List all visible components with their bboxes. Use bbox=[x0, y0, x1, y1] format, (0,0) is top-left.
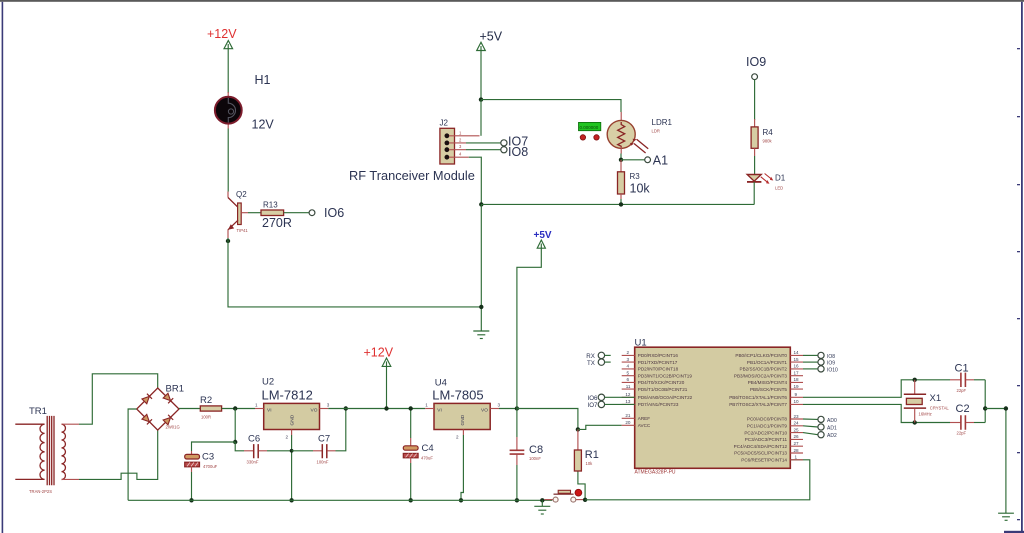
svg-text:PD3/INT1/OC2B/PCINT19: PD3/INT1/OC2B/PCINT19 bbox=[638, 373, 693, 378]
svg-text:5: 5 bbox=[626, 371, 629, 376]
svg-text:4: 4 bbox=[626, 364, 629, 369]
svg-text:R2: R2 bbox=[200, 395, 212, 406]
wire U1 to IO8 bbox=[803, 354, 818, 356]
svg-text:1: 1 bbox=[255, 402, 258, 407]
svg-text:LDR: LDR bbox=[652, 129, 660, 134]
svg-text:C6: C6 bbox=[248, 434, 260, 445]
svg-text:9: 9 bbox=[795, 392, 798, 397]
wire +5V node to R1 AVCC bbox=[517, 409, 578, 430]
svg-text:TX: TX bbox=[587, 360, 595, 367]
U1 right pin labels bbox=[729, 353, 787, 462]
svg-text:H1: H1 bbox=[255, 73, 271, 87]
junction right rail bbox=[983, 406, 987, 410]
resistor R4 bbox=[751, 119, 773, 156]
svg-text:C3: C3 bbox=[202, 452, 214, 463]
wire right rail to ground bbox=[985, 409, 1006, 514]
svg-text:2: 2 bbox=[286, 435, 289, 440]
wire C6 to U2 GND bbox=[267, 450, 292, 452]
wire LDR1 to junction bbox=[620, 154, 622, 160]
wire H1 to Q2 collector bbox=[227, 129, 229, 192]
capacitor C1 bbox=[950, 363, 985, 394]
svg-text:330nF: 330nF bbox=[247, 460, 259, 465]
wire D1 to rail bbox=[753, 182, 755, 205]
wire TR1 secondary top to BR1 bbox=[79, 374, 158, 424]
junction R2 C6 bbox=[233, 406, 237, 410]
svg-text:AD1: AD1 bbox=[827, 425, 837, 431]
junction C4 bottom bbox=[409, 498, 413, 502]
wire BR1 to R2 bbox=[179, 408, 200, 410]
LED D1 bbox=[747, 174, 786, 191]
wire C7 to VO rail bbox=[336, 409, 346, 451]
svg-text:C2: C2 bbox=[956, 403, 970, 415]
svg-text:Q2: Q2 bbox=[236, 190, 247, 199]
wire J2 pin3 to IO8 bbox=[466, 149, 501, 151]
svg-text:14: 14 bbox=[794, 350, 800, 355]
terminal IO10 right bbox=[818, 366, 838, 374]
junction U4 gnd rail bbox=[459, 498, 463, 502]
wire crystal right rail bbox=[984, 380, 986, 423]
power +5V supply bbox=[517, 230, 552, 409]
svg-text:22pF: 22pF bbox=[957, 388, 967, 393]
svg-text:PB2/SS/OC1B/PCINT2: PB2/SS/OC1B/PCINT2 bbox=[740, 367, 788, 372]
svg-text:D1: D1 bbox=[775, 174, 786, 183]
svg-text:PB6/TOSC1/XTAL1/PCINT6: PB6/TOSC1/XTAL1/PCINT6 bbox=[729, 395, 787, 400]
svg-text:3: 3 bbox=[498, 402, 501, 407]
svg-text:10: 10 bbox=[794, 399, 800, 404]
svg-text:1: 1 bbox=[425, 402, 428, 407]
transistor Q2 bbox=[228, 190, 248, 238]
svg-text:0.000000: 0.000000 bbox=[580, 125, 599, 130]
wire junction down to C3 C6 node bbox=[234, 409, 236, 443]
svg-text:IO8: IO8 bbox=[508, 145, 528, 159]
svg-text:PC5/ADC5/SCL/PCINT13: PC5/ADC5/SCL/PCINT13 bbox=[734, 451, 787, 456]
svg-text:PD2/INT0/PCINT18: PD2/INT0/PCINT18 bbox=[638, 367, 679, 372]
push button bbox=[545, 489, 584, 502]
wire U4 GND to ground rail bbox=[461, 435, 463, 500]
svg-text:20: 20 bbox=[625, 420, 631, 425]
svg-text:4700uF: 4700uF bbox=[203, 464, 218, 469]
svg-text:PC6/RESET/PCINT14: PC6/RESET/PCINT14 bbox=[741, 458, 787, 463]
resistor R13 bbox=[261, 200, 292, 230]
wire C6 lead left bbox=[235, 442, 244, 451]
terminal A1 bbox=[645, 154, 668, 168]
wire R2 to U2 VI bbox=[222, 408, 255, 410]
svg-text:PC4/ADC4/SDA/PCINT12: PC4/ADC4/SDA/PCINT12 bbox=[734, 444, 788, 449]
capacitor C3 bbox=[185, 451, 218, 472]
terminal IO6 at U1 bbox=[588, 394, 605, 402]
ground bottom section bbox=[534, 500, 550, 514]
svg-text:GND: GND bbox=[460, 414, 466, 425]
wire TR1 secondary bottom to BR1 (with hop) bbox=[79, 430, 158, 479]
svg-text:R1: R1 bbox=[585, 449, 599, 461]
svg-text:IO10: IO10 bbox=[827, 367, 838, 373]
svg-text:100nF: 100nF bbox=[317, 460, 329, 465]
svg-text:LED: LED bbox=[775, 186, 783, 191]
svg-text:+12V: +12V bbox=[364, 346, 394, 360]
svg-text:AVCC: AVCC bbox=[638, 423, 651, 428]
svg-text:C1: C1 bbox=[955, 363, 969, 375]
wire R13 to IO6 bbox=[284, 212, 310, 214]
svg-text:11: 11 bbox=[626, 384, 631, 389]
svg-text:23: 23 bbox=[794, 414, 800, 419]
terminal IO7 bbox=[501, 135, 528, 149]
wire +5V to junction bbox=[480, 46, 482, 100]
svg-text:2: 2 bbox=[626, 350, 629, 355]
wire XTAL1 net bbox=[803, 380, 950, 398]
capacitor C4 bbox=[403, 409, 433, 501]
svg-text:12V: 12V bbox=[252, 118, 275, 132]
svg-text:PC0/ADC0/PCINT8: PC0/ADC0/PCINT8 bbox=[747, 417, 788, 422]
svg-text:1: 1 bbox=[795, 455, 798, 460]
wire U1 to AD2 bbox=[803, 433, 818, 435]
junction R1 AVCC bbox=[576, 427, 580, 431]
U1 left pin stubs and numbers bbox=[622, 350, 635, 425]
wire U1 to IO9 bbox=[803, 361, 818, 363]
svg-text:R3: R3 bbox=[630, 172, 641, 181]
svg-text:PB4/MISO/PCINT4: PB4/MISO/PCINT4 bbox=[748, 380, 788, 385]
svg-text:X1: X1 bbox=[930, 393, 942, 404]
svg-text:+5V: +5V bbox=[534, 230, 552, 241]
wire rail to ground symbol bbox=[480, 204, 482, 331]
svg-text:PB7/TOSC2/XTAL2/PCINT7: PB7/TOSC2/XTAL2/PCINT7 bbox=[729, 402, 787, 407]
wire BR1 left corner to ground rail bbox=[128, 409, 137, 500]
junction C3 rail bbox=[189, 498, 193, 502]
wire J2 pin2 to IO7 bbox=[466, 142, 501, 144]
terminal IO9 right bbox=[818, 359, 835, 367]
junction Q2 emitter bbox=[226, 239, 230, 243]
wire C3 to ground rail bbox=[191, 472, 193, 500]
svg-text:C8: C8 bbox=[529, 444, 543, 456]
svg-text:PD5/T1/OC0B/PCINT21: PD5/T1/OC0B/PCINT21 bbox=[638, 387, 688, 392]
crystal X1 bbox=[904, 380, 950, 423]
svg-text:RF Tranceiver Module: RF Tranceiver Module bbox=[349, 168, 475, 183]
svg-text:100R: 100R bbox=[201, 415, 211, 420]
junction reset node bbox=[583, 498, 587, 502]
svg-text:IO8: IO8 bbox=[827, 354, 835, 360]
terminal RX bbox=[586, 352, 610, 360]
svg-text:PD1/TXD/PCINT17: PD1/TXD/PCINT17 bbox=[638, 360, 678, 365]
junction LDR1 R3 A1 bbox=[619, 158, 623, 162]
svg-text:R4: R4 bbox=[763, 128, 774, 137]
svg-text:100nF: 100nF bbox=[529, 456, 541, 461]
ground bottom right bbox=[998, 513, 1014, 520]
ground rail bottom bbox=[128, 499, 552, 501]
svg-text:18: 18 bbox=[794, 377, 800, 382]
microcontroller U1 bbox=[635, 338, 791, 476]
wire Q2 emitter to ground rail bbox=[228, 238, 481, 307]
junction +12V rail bbox=[384, 406, 388, 410]
wire U1 to AD1 bbox=[803, 426, 818, 427]
resistor R3 bbox=[618, 160, 651, 199]
lamp H1 bbox=[215, 73, 275, 132]
wire R3 to rail bbox=[620, 199, 622, 204]
wire to C3 bbox=[192, 442, 236, 451]
wire U2 VO rail to U4 bbox=[328, 408, 425, 410]
svg-text:PD4/T0/XCK/PCINT20: PD4/T0/XCK/PCINT20 bbox=[638, 380, 685, 385]
svg-text:U2: U2 bbox=[262, 377, 274, 388]
wire R4 to D1 bbox=[754, 156, 756, 175]
svg-text:980k: 980k bbox=[763, 139, 773, 144]
terminal AD1 bbox=[818, 424, 837, 432]
svg-text:PD7/AIN1/PCINT23: PD7/AIN1/PCINT23 bbox=[638, 402, 679, 407]
svg-text:VO: VO bbox=[311, 408, 318, 414]
wire U4 VO to +5V node bbox=[499, 408, 517, 410]
wire +12V to H1 bbox=[227, 44, 229, 93]
svg-text:24: 24 bbox=[794, 421, 800, 426]
svg-text:PB5/SCK/PCINT5: PB5/SCK/PCINT5 bbox=[750, 387, 787, 392]
svg-text:19: 19 bbox=[794, 384, 800, 389]
svg-text:16: 16 bbox=[794, 364, 800, 369]
wire J2 pin4 to ground rail bbox=[469, 157, 482, 204]
svg-text:3: 3 bbox=[626, 357, 629, 362]
svg-text:LDR1: LDR1 bbox=[652, 118, 673, 127]
svg-text:15: 15 bbox=[794, 357, 800, 362]
svg-text:PC2/ADC2/PCINT10: PC2/ADC2/PCINT10 bbox=[744, 430, 787, 435]
junction C7 rail bbox=[344, 406, 348, 410]
junction ground tap bbox=[540, 498, 544, 502]
svg-text:CRYSTAL: CRYSTAL bbox=[930, 405, 950, 410]
svg-text:PC1/ADC1/PCINT9: PC1/ADC1/PCINT9 bbox=[747, 424, 788, 429]
svg-text:LM-7805: LM-7805 bbox=[432, 388, 483, 403]
wire top ground rail bbox=[481, 203, 754, 205]
junction C6 C7 gnd bbox=[290, 449, 294, 453]
svg-text:PB0/ICP1/CLKO/PCINT0: PB0/ICP1/CLKO/PCINT0 bbox=[735, 353, 787, 358]
power +5V top bbox=[477, 30, 503, 51]
capacitor C6 bbox=[244, 434, 267, 465]
svg-text:470uF: 470uF bbox=[421, 456, 433, 461]
svg-text:AREF: AREF bbox=[638, 416, 650, 421]
junction C8 rail bbox=[515, 498, 519, 502]
svg-text:17: 17 bbox=[794, 371, 800, 376]
terminal IO9 bbox=[746, 55, 766, 80]
capacitor C8 bbox=[510, 437, 543, 465]
svg-text:C7: C7 bbox=[318, 434, 330, 445]
svg-text:LM-7812: LM-7812 bbox=[262, 388, 313, 403]
svg-text:AD0: AD0 bbox=[827, 418, 837, 424]
wire +5V node to C8 bbox=[516, 409, 518, 438]
svg-text:C4: C4 bbox=[422, 443, 434, 454]
photoresistor LDR1 bbox=[607, 112, 672, 154]
resistor R2 bbox=[200, 395, 222, 420]
capacitor C2 bbox=[950, 403, 985, 436]
svg-text:AD2: AD2 bbox=[827, 433, 837, 439]
U1 right pin stubs and numbers bbox=[790, 350, 803, 460]
junction +5V node bbox=[515, 406, 519, 410]
junction emitter wire bbox=[479, 305, 483, 309]
svg-text:BR1: BR1 bbox=[166, 384, 184, 395]
svg-text:10k: 10k bbox=[586, 461, 594, 466]
svg-text:U1: U1 bbox=[635, 338, 647, 349]
svg-text:PB3/MOSI/OC2A/PCINT3: PB3/MOSI/OC2A/PCINT3 bbox=[734, 373, 788, 378]
svg-text:R13: R13 bbox=[263, 200, 278, 209]
terminal IO8 bbox=[501, 145, 528, 159]
junction crystal top bbox=[913, 378, 917, 382]
wire R1 to reset node bbox=[578, 471, 585, 500]
svg-text:3: 3 bbox=[327, 402, 330, 407]
svg-text:IO6: IO6 bbox=[324, 206, 344, 220]
svg-text:27: 27 bbox=[794, 441, 800, 446]
svg-text:IO7: IO7 bbox=[588, 402, 599, 409]
svg-text:25: 25 bbox=[794, 427, 800, 432]
svg-text:26: 26 bbox=[794, 434, 800, 439]
wire +5V junction to LDR1 bbox=[481, 100, 621, 112]
svg-text:2W01G: 2W01G bbox=[166, 425, 180, 430]
svg-text:16MHz: 16MHz bbox=[919, 411, 932, 416]
LDR1 brightness display bbox=[579, 122, 601, 140]
svg-text:TRAN-2P2S: TRAN-2P2S bbox=[29, 489, 52, 494]
junction ground right bbox=[1004, 406, 1008, 410]
terminal IO8 right bbox=[818, 352, 835, 360]
regulator U2 LM-7812 bbox=[255, 377, 330, 440]
wire IO7 to U1 bbox=[605, 403, 635, 405]
power +12V supply bbox=[364, 346, 394, 409]
wire reset net to U1 pin1 bbox=[585, 460, 810, 500]
wire AVCC bbox=[578, 425, 622, 429]
svg-text:PB1/OC1A/PCINT1: PB1/OC1A/PCINT1 bbox=[747, 360, 788, 365]
ground top section bbox=[473, 331, 489, 339]
terminal IO7 at U1 bbox=[588, 401, 605, 409]
svg-text:+5V: +5V bbox=[480, 30, 503, 44]
svg-text:PD0/RXD/PCINT16: PD0/RXD/PCINT16 bbox=[638, 353, 679, 358]
svg-text:J2: J2 bbox=[440, 119, 449, 128]
junction U2 gnd rail bbox=[289, 498, 293, 502]
wire U1 to IO10 bbox=[803, 368, 818, 370]
svg-text:PD6/AIN0/OC0A/PCINT22: PD6/AIN0/OC0A/PCINT22 bbox=[638, 395, 693, 400]
terminal AD0 bbox=[818, 416, 837, 424]
U1 left pin labels bbox=[638, 353, 693, 428]
svg-text:A1: A1 bbox=[653, 154, 668, 168]
junction rail at R3 bbox=[619, 202, 623, 206]
svg-text:28: 28 bbox=[794, 448, 800, 453]
junction rail at J2 bbox=[479, 202, 483, 206]
transformer TR1 bbox=[15, 406, 79, 494]
wire IO9 to R4 bbox=[754, 80, 756, 120]
bridge rectifier BR1 bbox=[137, 384, 184, 431]
wire +5V junction to J2 pin1 bbox=[480, 100, 482, 136]
junction C3 C6 bbox=[233, 440, 237, 444]
svg-text:270R: 270R bbox=[262, 216, 292, 230]
wire XTAL2 net bbox=[803, 404, 950, 422]
connector J2 bbox=[440, 119, 480, 165]
resistor R1 bbox=[574, 429, 598, 471]
svg-text:TIP41: TIP41 bbox=[237, 228, 249, 233]
svg-text:IO6: IO6 bbox=[588, 395, 599, 402]
svg-text:PC3/ADC3/PCINT11: PC3/ADC3/PCINT11 bbox=[745, 437, 788, 442]
svg-text:21: 21 bbox=[625, 413, 631, 418]
svg-text:GND: GND bbox=[290, 414, 296, 425]
svg-text:2: 2 bbox=[456, 435, 459, 440]
wire C8 to ground rail bbox=[516, 465, 518, 500]
wire to A1 bbox=[621, 159, 645, 161]
terminal IO6 bbox=[309, 206, 344, 220]
power +12V bbox=[207, 27, 237, 49]
junction C4 top bbox=[409, 406, 413, 410]
junction crystal bottom bbox=[913, 420, 917, 424]
regulator U4 LM-7805 bbox=[425, 378, 500, 440]
wire U1 to AD0 bbox=[803, 418, 818, 420]
svg-text:12: 12 bbox=[625, 392, 631, 397]
svg-text:13: 13 bbox=[625, 399, 631, 404]
svg-text:22pF: 22pF bbox=[957, 431, 967, 436]
terminal AD2 bbox=[818, 432, 837, 440]
wire U2 GND to ground rail bbox=[291, 435, 293, 500]
svg-text:TR1: TR1 bbox=[29, 406, 47, 417]
svg-text:10k: 10k bbox=[630, 182, 651, 196]
svg-text:IO9: IO9 bbox=[827, 361, 835, 367]
svg-text:+12V: +12V bbox=[207, 27, 237, 41]
svg-text:ATMEGA328P-PU: ATMEGA328P-PU bbox=[635, 470, 676, 476]
wire IO6 to U1 bbox=[605, 396, 635, 398]
terminal TX bbox=[587, 359, 611, 367]
svg-text:6: 6 bbox=[626, 377, 629, 382]
svg-text:VO: VO bbox=[481, 408, 488, 414]
capacitor C7 bbox=[292, 434, 336, 465]
svg-text:VI: VI bbox=[267, 408, 272, 414]
svg-text:IO9: IO9 bbox=[746, 55, 766, 69]
junction +5V node top bbox=[479, 97, 483, 101]
wire Q2 base to R13 bbox=[248, 212, 261, 214]
svg-text:VI: VI bbox=[437, 408, 442, 414]
